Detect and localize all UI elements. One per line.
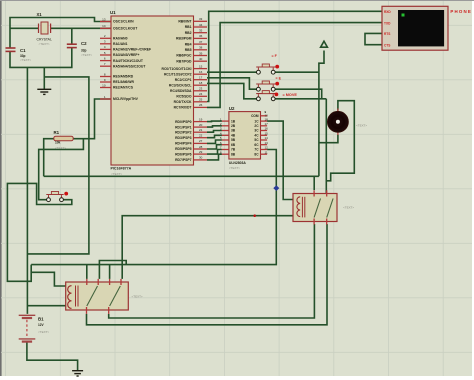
svg-text:20: 20: [199, 123, 203, 127]
wire MCLR net: pin1 to R1: [73, 99, 111, 139]
svg-text:CRYSTAL: CRYSTAL: [37, 38, 52, 42]
wire RD6 to U2 input 7B: [207, 150, 222, 155]
svg-text:RB6/PGC: RB6/PGC: [176, 54, 192, 58]
relay RL1: [293, 190, 354, 224]
svg-text:RTS: RTS: [384, 32, 390, 36]
wire button E row (pin17): [207, 78, 322, 99]
wire long net: relay RL2 commons to U2 output 7C: [31, 150, 276, 265]
svg-text:RA4/T0CKI/C1OUT: RA4/T0CKI/C1OUT: [113, 59, 144, 63]
svg-text:= E: = E: [276, 76, 282, 80]
svg-text:19: 19: [199, 117, 203, 121]
wire relay RL2 coil-top jog: [31, 272, 65, 286]
wire RD0 to U2 input 1B: [207, 120, 222, 123]
ground (crystal caps): [37, 89, 51, 94]
svg-text:U1: U1: [110, 10, 116, 15]
svg-text:4B: 4B: [231, 134, 236, 138]
wire RD1 to U2 input 2B: [207, 126, 222, 127]
svg-text:RC0/T1OSO/T1CKI: RC0/T1OSO/T1CKI: [162, 67, 192, 71]
wire relay RL1 contact2 to relay RL2 bottom B: [87, 224, 328, 325]
wire VCC long horizontal: [44, 175, 319, 177]
svg-text:RD7/PSP7: RD7/PSP7: [175, 158, 192, 162]
svg-text:MCLR/Vpp/THV: MCLR/Vpp/THV: [113, 97, 139, 101]
svg-text:RD0/PSP0: RD0/PSP0: [175, 120, 192, 124]
svg-text:15: 15: [199, 64, 203, 68]
svg-text:39: 39: [199, 51, 203, 55]
svg-text:RD1/PSP1: RD1/PSP1: [175, 125, 192, 129]
svg-text:RB7/PGD: RB7/PGD: [176, 59, 192, 63]
push button E: [256, 81, 279, 91]
svg-text:33: 33: [199, 17, 203, 21]
svg-text:11: 11: [265, 150, 268, 154]
wire battery positive rail from cap bus: [26, 67, 28, 314]
wire R1 left lead to VCC line: [44, 139, 54, 177]
wire ground branch to lower-left rail: [27, 77, 89, 254]
svg-text:13: 13: [265, 141, 269, 145]
svg-text:12V: 12V: [38, 323, 45, 327]
svg-text:<TEXT>: <TEXT>: [111, 172, 122, 176]
svg-text:X1: X1: [37, 12, 43, 17]
svg-text:RC2/CCP1: RC2/CCP1: [175, 78, 192, 82]
svg-text:17: 17: [265, 122, 269, 126]
wire relay RL2 pin branch 3: [109, 265, 111, 279]
svg-text:R1: R1: [54, 130, 60, 135]
svg-text:38: 38: [199, 46, 203, 50]
svg-text:27: 27: [199, 139, 203, 143]
svg-text:RA0/AN0: RA0/AN0: [113, 37, 128, 41]
op-chip U1 PIC16F877A: [100, 10, 207, 176]
svg-text:RB3/PGM: RB3/PGM: [176, 37, 192, 41]
ground (battery): [72, 371, 83, 376]
svg-text:RD4/PSP4: RD4/PSP4: [175, 142, 192, 146]
svg-text:34: 34: [199, 23, 203, 27]
wire VCC arrow stem: [319, 51, 324, 177]
wire RD7 to U2 input 8B: [207, 154, 222, 160]
svg-text:30: 30: [199, 156, 203, 160]
wire U2 output 1C to relay RL1 coil: [267, 121, 293, 199]
svg-text:<TEXT>: <TEXT>: [229, 166, 240, 170]
motor: [328, 109, 368, 136]
svg-text:RC6/TX/CK: RC6/TX/CK: [174, 100, 192, 104]
svg-text:7C: 7C: [254, 148, 259, 152]
svg-text:OSC1/CLKIN: OSC1/CLKIN: [113, 20, 134, 24]
svg-text:COM: COM: [251, 114, 259, 118]
wire reset button right to relay RL2 chain: [7, 183, 71, 281]
svg-text:RXD: RXD: [384, 10, 391, 14]
svg-text:RD6/PSP6: RD6/PSP6: [175, 152, 192, 156]
svg-text:CTS: CTS: [384, 43, 390, 47]
svg-text:18: 18: [199, 81, 203, 85]
svg-text:TXD: TXD: [384, 21, 391, 25]
wire phone RTS-CTS jumper: [365, 33, 382, 44]
svg-text:RA1/AN1: RA1/AN1: [113, 42, 128, 46]
push button MOVE: [256, 91, 278, 101]
svg-text:4C: 4C: [254, 134, 259, 138]
svg-text:17: 17: [199, 76, 203, 80]
svg-text:C2: C2: [81, 41, 87, 46]
svg-text:<TEXT>: <TEXT>: [132, 294, 143, 298]
wire OSC1 net (X1 left, C1, U1 pin13): [10, 18, 111, 49]
wire motor bottom to VCC: [319, 135, 338, 143]
svg-text:12: 12: [265, 146, 269, 150]
svg-text:24: 24: [199, 92, 203, 96]
svg-text:RE2/AN7/CS: RE2/AN7/CS: [113, 86, 134, 90]
svg-text:P H O N E: P H O N E: [450, 9, 470, 14]
wire button MOVE row (pin18): [207, 83, 326, 98]
svg-text:<TEXT>: <TEXT>: [343, 206, 354, 210]
svg-text:RE1/AN6/WR: RE1/AN6/WR: [113, 80, 134, 84]
terminal PHONE: [382, 6, 471, 50]
svg-text:1C: 1C: [254, 119, 259, 123]
svg-text:B1: B1: [38, 316, 44, 321]
wire relay RL2 pin2 riser: [99, 261, 126, 279]
capacitor C1: [6, 48, 32, 62]
wire motor top loop to relay RL1 contact2: [326, 101, 354, 181]
wire battery negative to ground: [27, 343, 78, 371]
wire MCLR branch to reset button: [39, 139, 84, 200]
svg-text:<TEXT>: <TEXT>: [55, 146, 66, 150]
svg-text:35: 35: [199, 29, 203, 33]
svg-text:10k: 10k: [55, 141, 61, 145]
svg-text:21: 21: [199, 128, 203, 132]
crystal X1: [37, 12, 52, 46]
push button RESET (bottom left): [46, 192, 68, 202]
svg-text:26: 26: [199, 103, 203, 107]
svg-text:23: 23: [199, 87, 203, 91]
svg-text:36: 36: [199, 34, 203, 38]
svg-text:RC5/SDO: RC5/SDO: [176, 95, 191, 99]
svg-text:22: 22: [199, 134, 203, 138]
wire relay RL1 contact1 to relay RL2 bottom A: [109, 224, 315, 318]
svg-text:29: 29: [199, 150, 203, 154]
wire RD2 to U2 input 3B: [207, 131, 222, 133]
svg-text:<TEXT>: <TEXT>: [39, 42, 50, 46]
svg-text:C1: C1: [20, 48, 26, 53]
driver U2 ULN2803A: [220, 106, 268, 170]
relay RL2: [66, 279, 143, 314]
svg-text:3C: 3C: [254, 129, 259, 133]
svg-text:10: 10: [102, 83, 106, 87]
svg-text:RB2: RB2: [185, 31, 192, 35]
svg-text:7B: 7B: [231, 148, 236, 152]
svg-text:RB5: RB5: [185, 48, 192, 52]
svg-text:33p: 33p: [81, 49, 87, 53]
svg-text:RB1: RB1: [185, 25, 192, 29]
wire RD5 to U2 input 6B: [207, 145, 222, 149]
svg-text:6C: 6C: [254, 143, 259, 147]
wire relay RL1 coil bottom to relay RL2 pin4: [122, 216, 293, 279]
svg-text:RC3/SCK/SCL: RC3/SCK/SCL: [169, 83, 192, 87]
wire relay RL1 contact1 common riser: [313, 176, 315, 190]
svg-text:RD5/PSP5: RD5/PSP5: [175, 147, 192, 151]
svg-text:RC4/SDI/SDA: RC4/SDI/SDA: [170, 89, 192, 93]
svg-text:PIC16F877A: PIC16F877A: [111, 167, 132, 171]
wire relay RL2 coil-bottom to battery rail: [27, 305, 65, 307]
svg-text:= MOVE: = MOVE: [283, 93, 298, 97]
power arrow VCC: [321, 41, 328, 47]
svg-text:6B: 6B: [231, 143, 236, 147]
svg-text:RC7/RX/DT: RC7/RX/DT: [174, 106, 193, 110]
svg-text:2C: 2C: [254, 124, 259, 128]
svg-text:U2: U2: [229, 106, 235, 111]
wire button E/MOVE drop to relay RL1: [325, 99, 327, 194]
svg-text:RD2/PSP2: RD2/PSP2: [175, 130, 192, 134]
svg-text:= F: = F: [272, 54, 278, 58]
svg-text:RA2/AN2/VREF-/CVREF: RA2/AN2/VREF-/CVREF: [113, 48, 151, 52]
svg-text:25: 25: [199, 98, 203, 102]
svg-text:RA5/AN4/SS/C2OUT: RA5/AN4/SS/C2OUT: [113, 64, 146, 68]
push button F: [256, 64, 279, 74]
wire ground stem near C1/C2: [43, 67, 45, 89]
svg-text:<TEXT>: <TEXT>: [81, 53, 92, 57]
battery B1: [19, 315, 50, 341]
svg-text:16: 16: [199, 70, 203, 74]
svg-text:37: 37: [199, 40, 203, 44]
svg-text:2B: 2B: [231, 124, 236, 128]
svg-text:16: 16: [265, 127, 269, 131]
wire capacitor ground bus: [10, 48, 72, 68]
svg-text:13: 13: [102, 17, 106, 21]
svg-text:OSC2/CLKOUT: OSC2/CLKOUT: [113, 27, 138, 31]
svg-text:28: 28: [199, 145, 203, 149]
wire button F row (pin16): [207, 71, 319, 73]
capacitor C2: [67, 41, 93, 57]
svg-text:15: 15: [265, 132, 269, 136]
svg-text:<TEXT>: <TEXT>: [356, 124, 367, 128]
svg-text:ULN2803A: ULN2803A: [229, 161, 247, 165]
svg-text:14: 14: [265, 136, 269, 140]
wire RD4 to U2 input 5B: [207, 140, 222, 143]
svg-text:RC1/T1OSI/CCP2: RC1/T1OSI/CCP2: [164, 72, 192, 76]
resistor R1: [54, 130, 74, 150]
wire OSC2 net (X1 right, C2, U1 pin14): [51, 28, 111, 43]
svg-text:<TEXT>: <TEXT>: [38, 330, 49, 334]
wire RD3 to U2 input 4B: [207, 135, 222, 137]
svg-text:5B: 5B: [231, 138, 236, 142]
svg-text:8C: 8C: [254, 152, 259, 156]
wire relay RL2 pin branch 1: [86, 265, 88, 279]
svg-text:40: 40: [199, 57, 203, 61]
svg-text:1B: 1B: [231, 119, 236, 123]
svg-text:RB0/INT: RB0/INT: [178, 20, 192, 24]
svg-text:<TEXT>: <TEXT>: [20, 58, 31, 62]
svg-text:RB4: RB4: [185, 42, 192, 46]
svg-text:14: 14: [102, 24, 106, 28]
svg-text:RA3/AN3/VREF+: RA3/AN3/VREF+: [113, 53, 139, 57]
svg-text:RD3/PSP3: RD3/PSP3: [175, 136, 192, 140]
node junction (blue diamond): [273, 185, 279, 191]
svg-text:8B: 8B: [231, 152, 236, 156]
wire phone TXD to pin26: [207, 23, 382, 108]
svg-text:5C: 5C: [254, 138, 259, 142]
svg-text:3B: 3B: [231, 129, 236, 133]
svg-text:RE0/AN5/RD: RE0/AN5/RD: [113, 75, 134, 79]
wire phone RXD to pin25: [207, 11, 382, 101]
junction (coil-bottom wire): [253, 214, 256, 217]
svg-text:18: 18: [265, 117, 269, 121]
